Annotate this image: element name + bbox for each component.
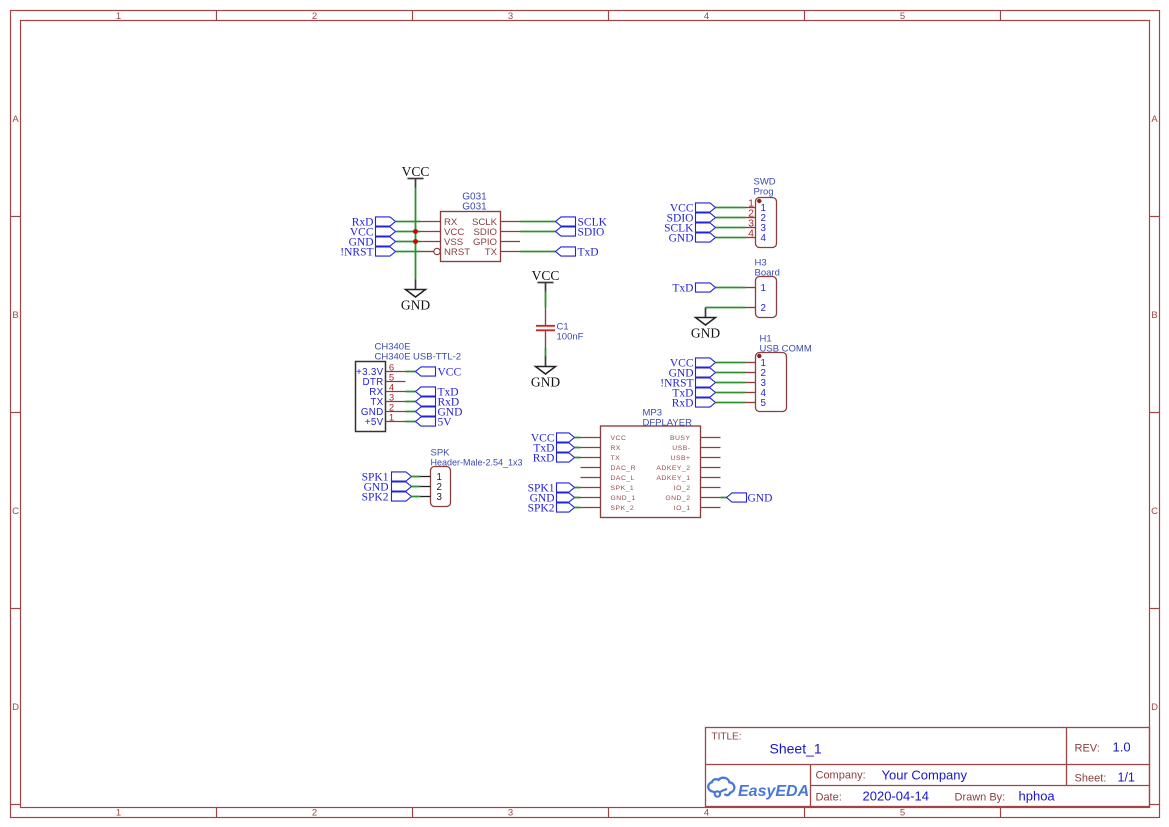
svg-text:1: 1	[116, 808, 121, 819]
svg-text:TX: TX	[485, 247, 498, 258]
svg-text:1: 1	[389, 412, 394, 423]
svg-text:2: 2	[761, 303, 766, 314]
net label SCLK (G031 right)	[556, 217, 608, 229]
svg-text:A: A	[12, 114, 19, 125]
ground (H3 pin2)	[691, 308, 720, 341]
wire GND to G031	[396, 241, 421, 243]
MP3 pin names	[611, 435, 691, 512]
svg-text:1.0: 1.0	[1113, 740, 1131, 755]
svg-text:4: 4	[704, 11, 709, 22]
svg-text:IO_2: IO_2	[674, 485, 691, 492]
svg-text:USB-: USB-	[672, 445, 690, 452]
wire CH340E to 5V	[406, 421, 416, 423]
svg-text:GND_1: GND_1	[611, 495, 636, 502]
svg-text:G031: G031	[462, 202, 487, 213]
H1 pin numbers 1-5	[761, 358, 767, 409]
svg-text:2020-04-14: 2020-04-14	[863, 789, 930, 804]
net label !NRST (H1)	[660, 378, 715, 390]
net label !NRST (G031 left)	[340, 247, 395, 259]
wire G031 TxD	[520, 251, 556, 253]
svg-text:5: 5	[900, 11, 905, 22]
svg-text:1: 1	[116, 11, 121, 22]
SWD pin numbers 1-4	[748, 198, 766, 244]
power flag VCC (top of U G031)	[402, 164, 430, 188]
svg-text:GND: GND	[748, 493, 773, 505]
wire VCC to MP3	[575, 437, 581, 439]
ground (below C1)	[531, 357, 560, 390]
svg-text:GND: GND	[669, 233, 694, 245]
svg-text:B: B	[12, 310, 18, 321]
G031 right pins SCLK SDIO GPIO TX	[501, 222, 521, 252]
net label SPK1 (MP3 left)	[528, 483, 575, 495]
svg-text:RxD: RxD	[533, 453, 555, 465]
ic MP3 DFPLAYER	[601, 408, 701, 518]
wire CH340E to TxD	[406, 391, 416, 393]
svg-text:TxD: TxD	[672, 283, 693, 295]
svg-text:VCC: VCC	[402, 164, 430, 179]
svg-text:GND: GND	[401, 298, 430, 313]
net label GND (G031 left)	[349, 237, 396, 249]
wire VCC to C1	[545, 292, 547, 308]
svg-text:TxD: TxD	[578, 247, 599, 259]
svg-text:D: D	[12, 702, 19, 713]
wire GND to SPK	[412, 486, 421, 488]
svg-text:Your Company: Your Company	[882, 768, 968, 783]
wire !NRST to H1	[716, 382, 746, 384]
wire SPK1 to SPK	[412, 476, 421, 478]
net label TxD (H1)	[672, 388, 715, 400]
svg-text:4: 4	[704, 808, 709, 819]
svg-text:IO_1: IO_1	[674, 505, 691, 512]
wire C1 to GND	[545, 348, 547, 358]
wire RxD to G031	[396, 221, 421, 223]
CH340E pins	[386, 372, 406, 422]
net label 5V (CH340E)	[416, 417, 453, 429]
CH340E pin numbers 6-1	[389, 362, 394, 423]
net label VCC (H1)	[670, 358, 716, 370]
net label VCC (G031 left)	[350, 227, 396, 239]
svg-text:EasyEDA: EasyEDA	[738, 783, 809, 800]
svg-text:SPK_1: SPK_1	[611, 485, 635, 492]
net label VCC (CH340E)	[416, 367, 462, 379]
ic U1 G031	[441, 192, 501, 262]
title block	[706, 728, 1150, 807]
net label TxD (CH340E)	[416, 387, 459, 399]
H3 pins 1-2	[746, 288, 756, 308]
svg-text:1/1: 1/1	[1118, 771, 1135, 785]
wire SPK2 to SPK	[412, 496, 421, 498]
wire G031 SDIO	[520, 231, 556, 233]
svg-text:DFPLAYER: DFPLAYER	[643, 418, 693, 429]
svg-text:VCC: VCC	[438, 367, 462, 379]
wire SPK2 to MP3	[575, 507, 581, 509]
ic CH340E USB-TTL-2	[356, 342, 462, 432]
connector H1 USB COMM	[756, 334, 812, 412]
svg-text:C: C	[1151, 506, 1158, 517]
svg-text:ADKEY_2: ADKEY_2	[656, 465, 690, 472]
net label RxD (CH340E)	[416, 397, 460, 409]
wire G031 SCLK	[520, 221, 556, 223]
wire CH340E to GND	[406, 411, 416, 413]
net label SDIO (G031 right)	[556, 227, 605, 239]
SPK pin numbers 1-3	[437, 472, 443, 503]
connector H3 Board	[755, 258, 780, 318]
svg-text:D: D	[1151, 702, 1158, 713]
svg-text:GND_2: GND_2	[665, 495, 690, 502]
svg-text:hphoa: hphoa	[1019, 789, 1056, 804]
SPK pins 1-3	[421, 477, 431, 497]
svg-text:5: 5	[761, 398, 767, 409]
net label GND (SPK)	[364, 482, 412, 494]
svg-text:DAC_L: DAC_L	[611, 475, 635, 482]
net label SPK2 (MP3 left)	[528, 503, 575, 515]
svg-text:5V: 5V	[438, 417, 453, 429]
svg-text:B: B	[1151, 310, 1157, 321]
wire VCC to G031	[396, 231, 421, 233]
SWD pins 1-4	[746, 208, 756, 238]
svg-text:SPK2: SPK2	[528, 503, 555, 515]
svg-text:DAC_R: DAC_R	[611, 465, 637, 472]
H1 pins 1-5	[746, 363, 756, 403]
svg-text:+5V: +5V	[365, 417, 384, 428]
G031 pin names	[444, 217, 498, 258]
junction on VSS pin row	[413, 239, 418, 244]
svg-text:SPK2: SPK2	[362, 492, 389, 504]
wire TxD to H1	[716, 392, 746, 394]
net label SDIO (SWD)	[667, 213, 716, 225]
wire GND to MP3	[575, 497, 581, 499]
svg-text:Company:: Company:	[816, 770, 866, 782]
wire H3 pin2 to ground	[706, 307, 746, 309]
G031 left pins RX VCC VSS	[421, 222, 441, 242]
wire MP3 GND_2 to net label	[721, 497, 727, 499]
junction on VCC pin row	[413, 229, 418, 234]
svg-text:CH340E USB-TTL-2: CH340E USB-TTL-2	[375, 352, 462, 363]
svg-text:Date:: Date:	[816, 792, 842, 804]
wire CH340E to RxD	[406, 401, 416, 403]
svg-text:USB+: USB+	[671, 455, 691, 462]
svg-text:GND: GND	[691, 326, 720, 341]
svg-text:4: 4	[748, 228, 754, 240]
svg-text:4: 4	[761, 233, 767, 244]
svg-text:TITLE:: TITLE:	[712, 732, 742, 743]
net label GND (CH340E)	[416, 407, 463, 419]
svg-text:!NRST: !NRST	[340, 247, 373, 259]
svg-text:GND: GND	[531, 375, 560, 390]
wire RxD to MP3	[575, 457, 581, 459]
svg-text:Prog: Prog	[754, 187, 774, 198]
wire SPK1 to MP3	[575, 487, 581, 489]
wire RxD to H1	[716, 402, 746, 404]
net label TxD (G031 right)	[556, 247, 599, 259]
svg-text:RX: RX	[611, 445, 621, 452]
svg-text:SPK_2: SPK_2	[611, 505, 635, 512]
wire CH340E to VCC	[406, 371, 416, 373]
svg-text:A: A	[1151, 114, 1158, 125]
value label C1 100nF	[557, 322, 584, 343]
wire TxD to H3 pin1	[716, 287, 746, 289]
svg-text:SDIO: SDIO	[578, 227, 605, 239]
H3 pin numbers 1-2	[761, 283, 766, 314]
G031 pin NRST with inversion bubble	[421, 248, 441, 254]
wire SCLK to SWD	[716, 227, 746, 229]
svg-text:VCC: VCC	[611, 435, 627, 442]
svg-text:BUSY: BUSY	[670, 435, 691, 442]
wire VCC vertical to GND	[415, 188, 417, 280]
net label TxD (H3)	[672, 283, 715, 295]
svg-text:3: 3	[508, 11, 513, 22]
svg-text:Sheet_1: Sheet_1	[770, 741, 822, 757]
svg-text:1: 1	[761, 283, 766, 294]
svg-text:RxD: RxD	[672, 398, 694, 410]
svg-text:Sheet:: Sheet:	[1075, 773, 1107, 785]
svg-text:NRST: NRST	[444, 247, 470, 258]
wire VCC to SWD	[716, 207, 746, 209]
wire GND to SWD	[716, 237, 746, 239]
svg-text:2: 2	[312, 11, 317, 22]
wire TxD to MP3	[575, 447, 581, 449]
net label SCLK (SWD)	[664, 223, 715, 235]
svg-text:VCC: VCC	[532, 268, 560, 283]
svg-text:3: 3	[508, 808, 513, 819]
svg-text:REV:: REV:	[1075, 743, 1100, 755]
net label RxD (MP3 left)	[533, 453, 575, 465]
net label SPK2 (SPK)	[362, 492, 412, 504]
connector SWD Prog	[754, 177, 777, 248]
svg-text:3: 3	[437, 492, 443, 503]
capacitor C1	[536, 308, 555, 348]
net label GND (H1)	[669, 368, 716, 380]
net label GND (MP3 left)	[530, 493, 575, 505]
svg-text:Drawn By:: Drawn By:	[955, 792, 1006, 804]
wire VCC to H1	[716, 362, 746, 364]
connector SPK Header-Male-2.54_1x3	[431, 448, 523, 507]
CH340E pin names	[356, 367, 384, 428]
wire SDIO to SWD	[716, 217, 746, 219]
svg-text:ADKEY_1: ADKEY_1	[656, 475, 690, 482]
MP3 right pins	[701, 438, 721, 508]
svg-text:5: 5	[900, 808, 905, 819]
svg-text:TX: TX	[611, 455, 621, 462]
net label RxD (H1)	[672, 398, 716, 410]
net label TxD (MP3 left)	[533, 443, 574, 455]
EasyEDA logo	[708, 778, 809, 800]
ground (below G031)	[401, 280, 430, 313]
wire GND to H1	[716, 372, 746, 374]
net label GND (MP3 right)	[727, 493, 773, 505]
svg-text:2: 2	[312, 808, 317, 819]
net label RxD (G031 left)	[352, 217, 396, 229]
svg-text:100nF: 100nF	[557, 332, 584, 343]
net label VCC (MP3 left)	[531, 433, 575, 445]
svg-text:C: C	[12, 506, 19, 517]
power flag VCC (above C1)	[532, 268, 560, 292]
net label VCC (SWD)	[670, 203, 716, 215]
net label GND (SWD)	[669, 233, 716, 245]
wire !NRST to G031	[396, 251, 421, 253]
MP3 left pins	[581, 438, 601, 508]
net label SPK1 (SPK)	[362, 472, 412, 484]
